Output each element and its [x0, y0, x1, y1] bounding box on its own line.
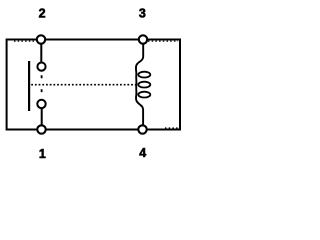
svg-text:4: 4 — [139, 146, 146, 160]
svg-text:1: 1 — [39, 147, 46, 161]
svg-text:3: 3 — [139, 7, 146, 21]
svg-text:2: 2 — [39, 7, 46, 21]
